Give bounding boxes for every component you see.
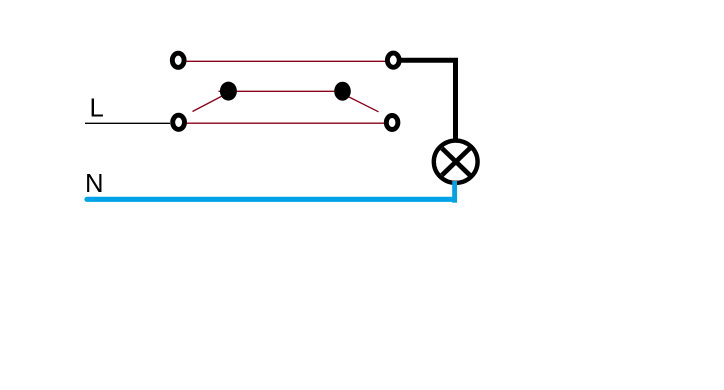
wire: neutral riser to lamp (blue) (452, 181, 457, 203)
wire: top strap between switch terminals (dark red) (187, 60, 386, 62)
wire: neutral N horizontal (blue) (87, 197, 455, 202)
svg-text:N: N (85, 170, 104, 198)
terminal: top-left open circle (172, 53, 184, 67)
svg-text:L: L (90, 95, 104, 123)
junction: left switch pivot dot (220, 82, 237, 101)
lamp E1: cross stroke 1 (442, 148, 470, 175)
wire: thick black feed from top-right terminal to lamp (401, 60, 456, 140)
wire: middle strap between switch poles (dark red) (219, 90, 345, 92)
wire: bottom strap between switch terminals (dark red) (187, 122, 385, 124)
terminal: bottom-left open circle (173, 115, 185, 129)
junction: right switch pivot dot (334, 82, 351, 101)
terminal: top-right open circle (387, 53, 399, 67)
wire: left switch blade (diagonal, dark red) (193, 95, 225, 112)
lamp E1: circle (434, 141, 478, 183)
wire: right switch blade (diagonal, dark red) (347, 96, 379, 112)
lamp E1: cross stroke 2 (442, 148, 470, 175)
terminal: bottom-right open circle (386, 116, 398, 130)
wire: L feed (black) (85, 122, 170, 124)
